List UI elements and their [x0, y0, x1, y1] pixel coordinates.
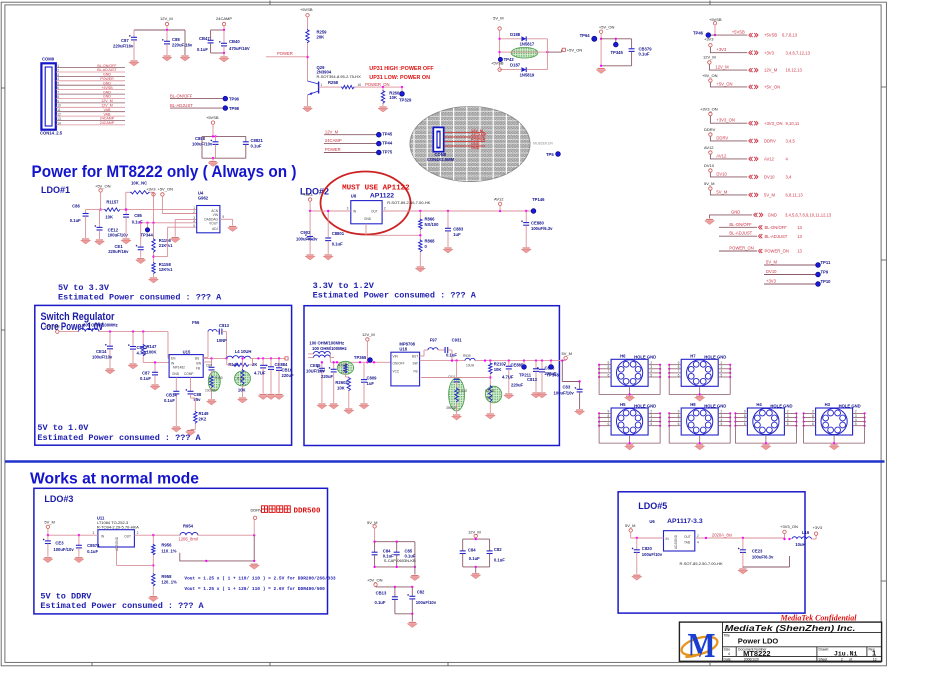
- svg-text:220uF/16v: 220uF/16v: [108, 249, 129, 254]
- svg-text:10NF: 10NF: [217, 338, 228, 343]
- svg-text:C84: C84: [468, 548, 476, 553]
- svg-text:TP344: TP344: [141, 233, 154, 238]
- svg-text:DDRV: DDRV: [716, 135, 728, 140]
- svg-text:C85: C85: [134, 213, 142, 218]
- svg-text:POWER: POWER: [277, 51, 293, 56]
- svg-text:Power for MT8222 only ( Always: Power for MT8222 only ( Always on ): [32, 162, 297, 181]
- svg-text:C82: C82: [417, 590, 425, 595]
- svg-text:1: 1: [321, 83, 323, 87]
- svg-text:NS/100: NS/100: [425, 222, 440, 227]
- svg-text:C820: C820: [642, 546, 653, 551]
- svg-text:100 OHM/100MHz: 100 OHM/100MHz: [312, 346, 347, 351]
- svg-text:+3V3: +3V3: [146, 187, 156, 192]
- svg-text:3.3V to 1.2V: 3.3V to 1.2V: [313, 281, 375, 291]
- svg-text:+5VSB: +5VSB: [101, 86, 113, 90]
- svg-text:BL-ADJUST: BL-ADJUST: [170, 103, 193, 108]
- svg-text:12V_M: 12V_M: [362, 332, 375, 337]
- svg-text:5: 5: [650, 422, 652, 426]
- svg-text:TP5: TP5: [546, 152, 554, 157]
- svg-text:13: 13: [873, 657, 877, 661]
- svg-text:3,4,5: 3,4,5: [786, 139, 796, 144]
- svg-text:Jiu.Ni: Jiu.Ni: [834, 651, 858, 658]
- svg-text:CB16: CB16: [282, 368, 293, 373]
- svg-text:1: 1: [57, 64, 59, 68]
- svg-text:4.2K: 4.2K: [486, 396, 493, 400]
- svg-text:6: 6: [744, 422, 746, 426]
- svg-text:F56: F56: [192, 320, 200, 325]
- svg-text:600 OHM/100MHz: 600 OHM/100MHz: [83, 323, 118, 328]
- svg-text:CE23: CE23: [752, 549, 763, 554]
- svg-text:BS: BS: [195, 357, 199, 361]
- svg-text:CB13: CB13: [376, 591, 387, 596]
- svg-text:+5V_ON: +5V_ON: [567, 47, 583, 52]
- svg-text:1N5817: 1N5817: [520, 42, 535, 47]
- svg-text:AV12: AV12: [764, 157, 775, 162]
- svg-text:TP329: TP329: [399, 98, 412, 103]
- svg-text:C88: C88: [172, 37, 180, 42]
- svg-text:GND: GND: [731, 209, 740, 214]
- svg-text:0.1uF: 0.1uF: [164, 398, 175, 403]
- svg-text:+5V_ON: +5V_ON: [764, 85, 780, 90]
- svg-text:+3V3: +3V3: [716, 47, 727, 52]
- svg-text:C809: C809: [367, 376, 378, 381]
- svg-text:5V to DDRV: 5V to DDRV: [40, 591, 92, 601]
- svg-text:AV12: AV12: [494, 197, 504, 202]
- svg-text:100uF/10v: 100uF/10v: [554, 391, 575, 396]
- svg-text:10UF/16V: 10UF/16V: [306, 369, 325, 374]
- svg-text:C811: C811: [448, 375, 456, 379]
- svg-text:220uF/16v: 220uF/16v: [113, 44, 134, 49]
- svg-text:TAB: TAB: [684, 541, 690, 545]
- svg-text:+5V_ON: +5V_ON: [158, 187, 174, 192]
- svg-text:5: 5: [193, 224, 195, 228]
- svg-text:C88: C88: [206, 364, 212, 368]
- svg-text:6,7,8,13: 6,7,8,13: [782, 33, 798, 38]
- svg-text:5: 5: [855, 422, 857, 426]
- svg-text:R-SOT-89-2.50-7.00-HK: R-SOT-89-2.50-7.00-HK: [387, 200, 430, 205]
- svg-text:3: 3: [347, 207, 349, 211]
- svg-text:100uF/10v: 100uF/10v: [416, 600, 437, 605]
- svg-text:VOUT: VOUT: [209, 221, 218, 225]
- svg-text:of: of: [849, 657, 852, 661]
- svg-text:12: 12: [57, 113, 61, 117]
- svg-text:CE880: CE880: [531, 221, 544, 226]
- svg-text:6: 6: [678, 373, 680, 377]
- svg-text:+5VSB: +5VSB: [206, 115, 219, 120]
- svg-text:5V to 1.0V: 5V to 1.0V: [37, 423, 89, 433]
- svg-text:5V_M: 5V_M: [44, 519, 54, 524]
- svg-text:C888: C888: [195, 136, 206, 141]
- svg-text:R939: R939: [463, 354, 471, 358]
- svg-text:24CAMP: 24CAMP: [216, 16, 232, 21]
- svg-text:2: 2: [697, 534, 699, 538]
- svg-text:UP31 LOW: POWER ON: UP31 LOW: POWER ON: [369, 75, 430, 81]
- svg-text:C883: C883: [453, 227, 464, 232]
- svg-text:0.1uF: 0.1uF: [197, 47, 208, 52]
- svg-text:D187: D187: [510, 63, 521, 68]
- svg-text:EN: EN: [171, 357, 176, 361]
- svg-text:10,12,13: 10,12,13: [786, 68, 803, 73]
- svg-text:OUT: OUT: [371, 210, 378, 214]
- svg-text:12V_M: 12V_M: [160, 16, 173, 21]
- svg-text:10K: 10K: [105, 215, 113, 220]
- svg-text:R-SOT394-8.95-2.75-HX: R-SOT394-8.95-2.75-HX: [317, 74, 362, 79]
- svg-text:R958: R958: [161, 574, 172, 579]
- svg-text:+5V_ON: +5V_ON: [367, 578, 383, 583]
- svg-text:AP1122: AP1122: [370, 193, 394, 200]
- svg-text:13: 13: [797, 225, 802, 230]
- svg-text:CE884: CE884: [275, 362, 288, 367]
- svg-text:0.1uF: 0.1uF: [469, 556, 480, 561]
- svg-text:C82: C82: [494, 547, 502, 552]
- svg-text:F97: F97: [430, 338, 438, 343]
- svg-text:G962: G962: [198, 195, 209, 200]
- svg-text:TP64: TP64: [580, 33, 591, 38]
- svg-text:2006/1/20: 2006/1/20: [744, 657, 759, 661]
- svg-text:OUT: OUT: [684, 535, 691, 539]
- svg-text:MU82EK1/R: MU82EK1/R: [533, 142, 553, 146]
- svg-text:GND: GND: [103, 90, 111, 94]
- svg-text:5: 5: [721, 373, 723, 377]
- svg-text:DDRV: DDRV: [251, 508, 263, 513]
- svg-text:R1157: R1157: [106, 200, 119, 205]
- svg-text:0.1uF: 0.1uF: [639, 52, 650, 57]
- svg-text:5: 5: [222, 215, 224, 219]
- svg-text:TP10: TP10: [821, 279, 832, 284]
- svg-text:BL-ON/OFF: BL-ON/OFF: [729, 222, 752, 227]
- svg-text:L4 10UH: L4 10UH: [235, 349, 252, 354]
- svg-text:220uF: 220uF: [282, 373, 295, 378]
- svg-text:POWER_ON: POWER_ON: [765, 249, 789, 254]
- svg-text:+3V3: +3V3: [303, 192, 313, 197]
- svg-text:100uF/10v: 100uF/10v: [642, 552, 663, 557]
- svg-text:12V_M: 12V_M: [468, 530, 481, 535]
- svg-text:6: 6: [608, 422, 610, 426]
- svg-text:TP98: TP98: [229, 106, 240, 111]
- svg-text:100uF/6.3v: 100uF/6.3v: [752, 555, 774, 560]
- svg-text:5V_M: 5V_M: [704, 181, 714, 186]
- svg-text:TP46: TP46: [693, 31, 704, 36]
- svg-text:BL-ADJUST: BL-ADJUST: [765, 234, 788, 239]
- svg-text:Title: Title: [724, 634, 730, 638]
- svg-text:100uF/6.3v: 100uF/6.3v: [531, 226, 553, 231]
- svg-text:AV12: AV12: [704, 145, 714, 150]
- svg-text:5: 5: [787, 422, 789, 426]
- svg-text:R954: R954: [183, 523, 194, 528]
- svg-text:4: 4: [697, 541, 699, 545]
- svg-text:100uF/10v: 100uF/10v: [92, 355, 113, 360]
- svg-text:Works at normal mode: Works at normal mode: [30, 471, 199, 488]
- svg-text:14: 14: [57, 121, 61, 125]
- svg-text:C931: C931: [452, 338, 463, 343]
- svg-text:Power LDO: Power LDO: [738, 637, 779, 646]
- svg-text:BL-ON/OFF: BL-ON/OFF: [97, 64, 117, 68]
- svg-text:UP31 HIGH :POWER OFF: UP31 HIGH :POWER OFF: [369, 66, 434, 72]
- svg-text:220uF: 220uF: [321, 374, 334, 379]
- svg-text:POWER: POWER: [471, 138, 486, 142]
- svg-text:Vout = 1.25 x ( 1 + 110/ 110 ): Vout = 1.25 x ( 1 + 110/ 110 ) = 2.5V fo…: [184, 576, 336, 582]
- svg-text:C8821: C8821: [251, 138, 264, 143]
- svg-text:+5V_ON: +5V_ON: [599, 25, 615, 30]
- svg-text:5V to 3.3V: 5V to 3.3V: [58, 283, 110, 293]
- svg-text:GND: GND: [172, 372, 180, 376]
- svg-text:L16: L16: [802, 530, 810, 535]
- svg-text:CB40: CB40: [229, 39, 240, 44]
- svg-text:6,8,11,13: 6,8,11,13: [786, 193, 804, 198]
- svg-text:LDO#5: LDO#5: [638, 501, 667, 511]
- svg-text:0.1uF: 0.1uF: [87, 549, 98, 554]
- svg-text:VAB: VAB: [104, 112, 112, 116]
- svg-text:2020A_8si: 2020A_8si: [712, 533, 732, 538]
- svg-text:TP45: TP45: [382, 132, 393, 137]
- svg-text:4: 4: [728, 652, 730, 656]
- svg-text:5V_M: 5V_M: [367, 520, 377, 525]
- svg-text:COMP: COMP: [184, 372, 194, 376]
- svg-text:MUST USE AP1122: MUST USE AP1122: [342, 185, 410, 193]
- svg-text:GND: GND: [103, 95, 111, 99]
- svg-text:13: 13: [57, 117, 61, 121]
- svg-text:CB14: CB14: [166, 393, 177, 398]
- svg-text:2: 2: [137, 531, 139, 535]
- svg-text:3: 3: [57, 73, 59, 77]
- svg-text:Estimated Power consumed : ???: Estimated Power consumed : ??? A: [313, 291, 477, 301]
- svg-text:C8574: C8574: [87, 543, 100, 548]
- svg-text:0.1uF: 0.1uF: [332, 242, 343, 247]
- svg-text:TP43: TP43: [504, 57, 515, 62]
- svg-text:10UH: 10UH: [466, 364, 475, 368]
- svg-text:+5VSB: +5VSB: [491, 61, 504, 66]
- svg-text:+3V3_ON: +3V3_ON: [700, 107, 718, 112]
- svg-text:100K: 100K: [147, 350, 157, 355]
- svg-text:CB47: CB47: [199, 36, 210, 41]
- svg-text:7: 7: [57, 91, 59, 95]
- svg-text:TP146: TP146: [532, 197, 545, 202]
- svg-text:H8: H8: [690, 402, 696, 407]
- svg-text:AP1117-3.3: AP1117-3.3: [667, 518, 703, 525]
- svg-text:10K: 10K: [341, 370, 348, 374]
- svg-text:100 OHM/100MHz: 100 OHM/100MHz: [309, 341, 344, 346]
- svg-text:U15: U15: [183, 349, 191, 354]
- svg-text:TP96: TP96: [229, 97, 240, 102]
- svg-text:0.1uF: 0.1uF: [70, 218, 81, 223]
- svg-text:+5VSB: +5VSB: [764, 33, 777, 38]
- svg-text:VIN: VIN: [393, 355, 399, 359]
- svg-text:+3V3: +3V3: [704, 37, 714, 42]
- svg-text:TP9: TP9: [821, 270, 829, 275]
- svg-text:R118: R118: [237, 377, 245, 381]
- svg-text:2: 2: [193, 210, 195, 214]
- svg-text:FB: FB: [196, 367, 200, 371]
- svg-text:5V_M: 5V_M: [764, 193, 775, 198]
- svg-text:+5V_ON: +5V_ON: [716, 81, 732, 86]
- svg-text:10K: 10K: [337, 386, 345, 391]
- svg-text:Size: Size: [724, 648, 731, 652]
- svg-text:5: 5: [721, 422, 723, 426]
- svg-text:DDR500: DDR500: [294, 507, 322, 515]
- svg-text:D188: D188: [510, 32, 521, 37]
- svg-text:AV12: AV12: [716, 153, 727, 158]
- svg-text:6: 6: [678, 422, 680, 426]
- svg-text:+3V3: +3V3: [813, 525, 823, 530]
- svg-text:+3V3_ON: +3V3_ON: [780, 524, 798, 529]
- svg-text:10K: 10K: [238, 388, 246, 393]
- svg-text:CON4X2.5MM: CON4X2.5MM: [427, 157, 455, 162]
- svg-text:24CAMP: 24CAMP: [100, 121, 115, 125]
- svg-text:Estimated Power consumed : ???: Estimated Power consumed : ??? A: [40, 601, 204, 611]
- svg-text:21K%1: 21K%1: [159, 243, 173, 248]
- svg-text:TP44: TP44: [382, 141, 393, 146]
- svg-text:20K: 20K: [317, 35, 325, 40]
- svg-text:3960pF: 3960pF: [446, 406, 457, 410]
- svg-text:C813: C813: [219, 323, 230, 328]
- svg-text:POWER: POWER: [325, 147, 341, 152]
- svg-text:100uF/10v: 100uF/10v: [53, 547, 74, 552]
- svg-text:R2602: R2602: [335, 380, 348, 385]
- svg-text:DV10: DV10: [764, 175, 775, 180]
- svg-text:10K: 10K: [494, 367, 502, 372]
- svg-text:CE3: CE3: [55, 541, 64, 546]
- svg-text:H4: H4: [756, 402, 762, 407]
- svg-text:GND: GND: [103, 73, 111, 77]
- svg-text:C902: C902: [300, 230, 311, 235]
- svg-text:MediaTek (ShenZhen) Inc.: MediaTek (ShenZhen) Inc.: [725, 623, 856, 633]
- svg-text:4: 4: [193, 219, 195, 223]
- svg-text:+5V_ON: +5V_ON: [44, 324, 60, 329]
- svg-text:12V_M: 12V_M: [764, 68, 778, 73]
- svg-text:9,10,11: 9,10,11: [786, 121, 800, 126]
- svg-text:DDRV: DDRV: [764, 139, 776, 144]
- svg-text:6: 6: [608, 373, 610, 377]
- svg-text:TP346: TP346: [547, 373, 560, 378]
- svg-text:R258: R258: [328, 80, 339, 85]
- svg-text:ADJ: ADJ: [212, 227, 218, 231]
- svg-text:R2106: R2106: [485, 389, 495, 393]
- svg-text:MediaTek Confidential: MediaTek Confidential: [780, 614, 858, 623]
- svg-text:4.7UF: 4.7UF: [254, 371, 266, 376]
- svg-text:H5: H5: [620, 402, 626, 407]
- svg-text:12V_M: 12V_M: [101, 99, 112, 103]
- svg-text:3,4: 3,4: [786, 175, 792, 180]
- svg-text:ADJ/GND: ADJ/GND: [674, 534, 678, 549]
- svg-text:+3V3: +3V3: [766, 279, 777, 284]
- svg-text:Estimated Power consumed : ???: Estimated Power consumed : ??? A: [58, 293, 222, 303]
- svg-text:0.1uF: 0.1uF: [251, 144, 262, 149]
- svg-text:+5V_ON: +5V_ON: [702, 73, 718, 78]
- svg-text:POWER_ON: POWER_ON: [729, 246, 753, 251]
- svg-text:100uF/10v: 100uF/10v: [192, 142, 213, 147]
- svg-text:3: 3: [93, 531, 95, 535]
- svg-text:10cohm: 10cohm: [205, 389, 217, 393]
- svg-text:120_1%: 120_1%: [161, 580, 177, 585]
- svg-text:24CAMP: 24CAMP: [325, 138, 342, 143]
- svg-text:C87: C87: [121, 38, 129, 43]
- svg-text:U6: U6: [649, 519, 655, 524]
- svg-text:6: 6: [812, 422, 814, 426]
- svg-text:9: 9: [57, 99, 59, 103]
- svg-text:VAB: VAB: [104, 108, 112, 112]
- svg-text:16: 16: [358, 83, 362, 87]
- svg-text:12V_M: 12V_M: [325, 129, 339, 134]
- svg-text:R149: R149: [199, 411, 210, 416]
- svg-text:H3: H3: [825, 402, 831, 407]
- svg-text:+3V3: +3V3: [764, 50, 775, 55]
- svg-text:DDRV: DDRV: [704, 127, 716, 132]
- svg-text:TP365: TP365: [354, 355, 367, 360]
- svg-text:5V_M: 5V_M: [493, 16, 503, 21]
- svg-text:H7: H7: [690, 353, 696, 358]
- svg-text:C8801: C8801: [332, 231, 345, 236]
- svg-text:H6: H6: [620, 353, 626, 358]
- svg-text:3,4,5,6,7,8,9,10,11,12,13: 3,4,5,6,7,8,9,10,11,12,13: [785, 213, 832, 218]
- svg-text:BL-ON/OFF: BL-ON/OFF: [170, 94, 193, 99]
- svg-text:R868: R868: [425, 239, 436, 244]
- svg-text:U8: U8: [351, 194, 357, 199]
- svg-text:10K: 10K: [389, 95, 397, 100]
- svg-text:470uF/16V: 470uF/16V: [229, 46, 250, 51]
- svg-text:GND: GND: [768, 213, 777, 218]
- svg-text:R866: R866: [425, 217, 436, 222]
- svg-text:GND: GND: [471, 146, 480, 150]
- svg-text:TP75: TP75: [382, 150, 393, 155]
- svg-text:24CAMP: 24CAMP: [100, 117, 115, 121]
- svg-text:CE14: CE14: [96, 349, 107, 354]
- svg-text:MP1482: MP1482: [173, 366, 185, 370]
- svg-text:+3V3_ON: +3V3_ON: [716, 118, 735, 123]
- svg-text:LDO#3: LDO#3: [44, 494, 73, 504]
- svg-text:12V_M: 12V_M: [471, 129, 483, 133]
- svg-text:3,4,6,7,12,13: 3,4,6,7,12,13: [786, 50, 811, 55]
- svg-text:220uF: 220uF: [511, 383, 524, 388]
- svg-text:R150: R150: [215, 376, 223, 380]
- svg-text:BL-ADJUST: BL-ADJUST: [729, 231, 752, 236]
- svg-text:2: 2: [57, 68, 59, 72]
- svg-text:110_1%: 110_1%: [161, 548, 176, 553]
- svg-text:5V_M: 5V_M: [766, 260, 777, 265]
- svg-text:10: 10: [57, 104, 61, 108]
- svg-text:BL-ON/OFF: BL-ON/OFF: [765, 225, 788, 230]
- svg-text:12K%1: 12K%1: [159, 267, 173, 272]
- svg-text:S-CAP-0603N-KB: S-CAP-0603N-KB: [384, 558, 416, 563]
- svg-text:C813: C813: [527, 377, 538, 382]
- svg-text:BL-ADJUST: BL-ADJUST: [97, 68, 117, 72]
- svg-text:ON/OFF: ON/OFF: [393, 362, 405, 366]
- svg-text:ADJ/GND: ADJ/GND: [115, 536, 119, 551]
- svg-text:+5VSB: +5VSB: [300, 7, 313, 12]
- svg-text:220uF/16v: 220uF/16v: [172, 43, 193, 48]
- svg-text:R2107: R2107: [494, 362, 507, 367]
- svg-text:TP11: TP11: [821, 260, 831, 265]
- svg-text:5V_M: 5V_M: [716, 189, 727, 194]
- svg-text:24CAMP: 24CAMP: [471, 133, 487, 137]
- svg-text:TP345: TP345: [611, 50, 624, 55]
- svg-text:100uF/10v: 100uF/10v: [108, 233, 129, 238]
- svg-text:CON14_2.5: CON14_2.5: [40, 131, 63, 136]
- svg-text:0.1uF: 0.1uF: [446, 353, 457, 358]
- svg-text:GND: GND: [364, 217, 372, 221]
- svg-text:+5VSB: +5VSB: [732, 30, 745, 35]
- svg-text:11: 11: [57, 108, 61, 112]
- svg-text:4.7UF: 4.7UF: [502, 375, 514, 380]
- svg-text:POWER: POWER: [100, 77, 114, 81]
- svg-text:VCC: VCC: [393, 370, 400, 374]
- svg-text:1uF: 1uF: [367, 381, 375, 386]
- svg-text:R2502: R2502: [338, 364, 348, 368]
- svg-text:2: 2: [841, 657, 843, 661]
- svg-text:5: 5: [650, 373, 652, 377]
- svg-text:LDO#1: LDO#1: [41, 185, 70, 195]
- svg-text:12V_M: 12V_M: [715, 65, 729, 70]
- svg-text:2: 2: [384, 207, 386, 211]
